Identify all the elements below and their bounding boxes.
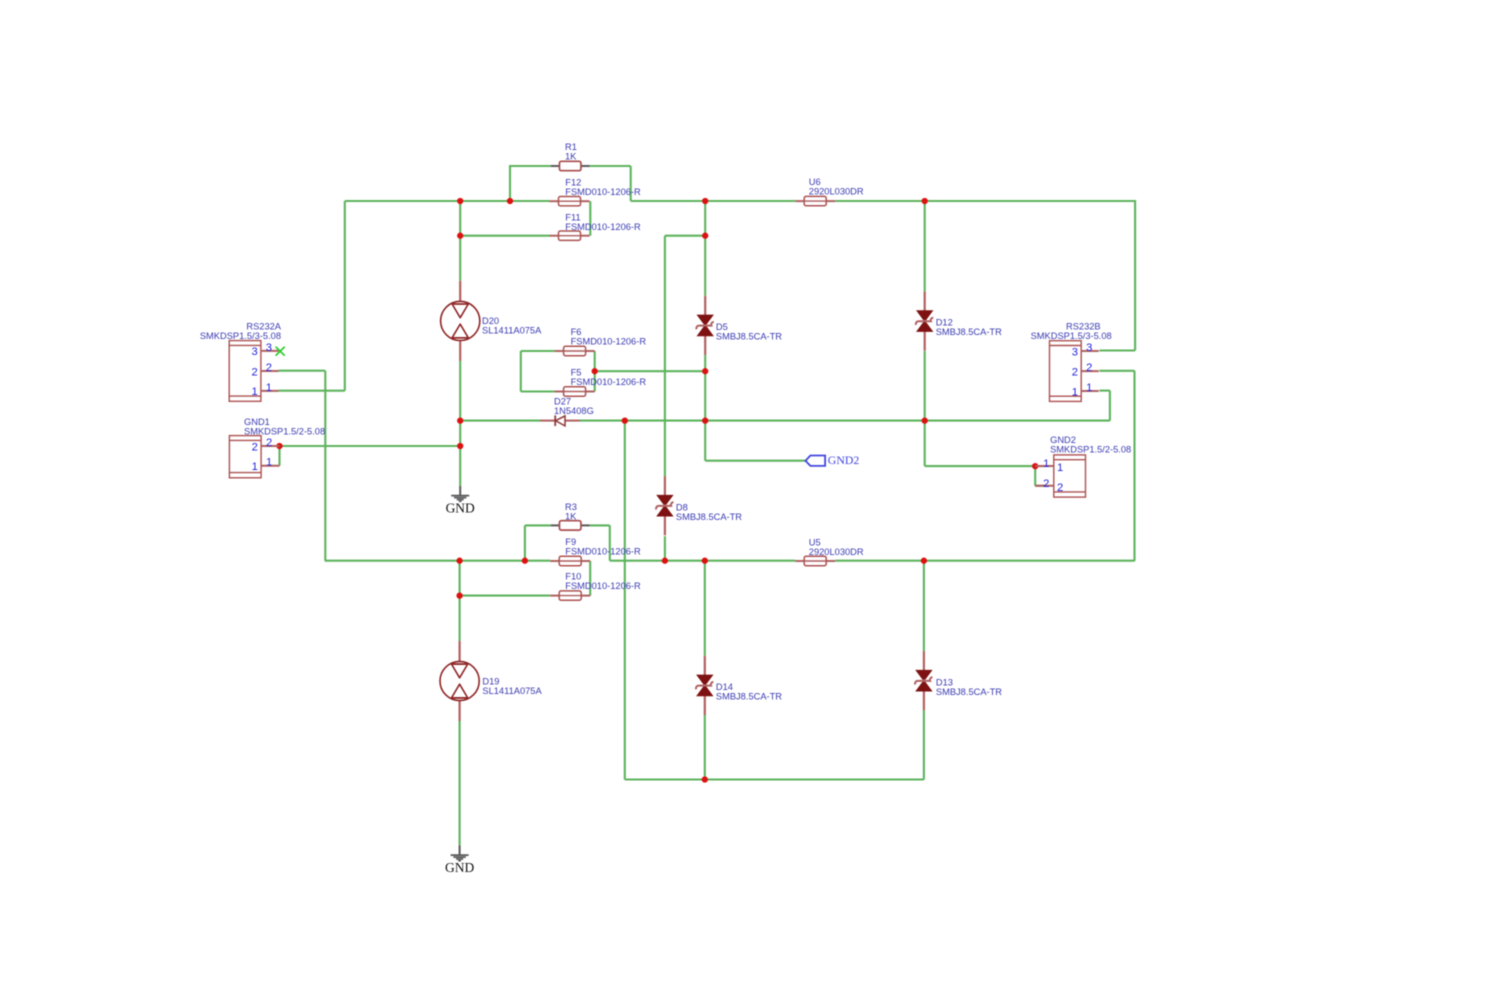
junction (662, 558, 668, 564)
svg-text:D19: D19 (482, 676, 499, 686)
svg-text:2: 2 (266, 362, 272, 374)
TVS diode D8 body (656, 476, 673, 535)
connector RS232B body (1050, 341, 1099, 402)
svg-text:D20: D20 (482, 316, 499, 326)
fuse U6 body (795, 196, 835, 205)
svg-text:FSMD010-1206-R: FSMD010-1206-R (571, 337, 647, 347)
label D13 (936, 677, 1002, 697)
svg-text:2: 2 (1086, 362, 1092, 374)
wire RS232A pin1 link (279, 390, 345, 392)
junction (622, 417, 628, 423)
wire RS232A pin2 link (279, 370, 326, 372)
RS232B pin 3 number (1072, 342, 1093, 358)
wire GND2 conn drop (924, 421, 926, 467)
junction (702, 368, 708, 374)
wire GND2 conn pin tie (1034, 466, 1036, 486)
resistor R3 body (551, 521, 590, 530)
svg-text:SMBJ8.5CA-TR: SMBJ8.5CA-TR (936, 327, 1002, 337)
wire RS232B pin2 link (1099, 370, 1134, 372)
svg-text:R3: R3 (565, 502, 577, 512)
svg-text:SMKDSP1.5/2-5.08: SMKDSP1.5/2-5.08 (1050, 444, 1131, 454)
svg-text:3: 3 (1072, 346, 1078, 358)
svg-text:1: 1 (266, 457, 272, 469)
fuse F12 body (550, 197, 590, 206)
svg-text:FSMD010-1206-R: FSMD010-1206-R (565, 546, 641, 556)
wire net2 branch row (665, 235, 705, 237)
svg-text:3: 3 (1086, 342, 1092, 354)
wire bottom row west (325, 560, 550, 562)
junction (702, 233, 708, 239)
wire R1 left drop (509, 165, 511, 201)
wire bottom row mid (610, 560, 795, 562)
label F9 (565, 537, 641, 557)
svg-text:2: 2 (266, 437, 272, 449)
wire R3 right drop (609, 525, 611, 560)
svg-text:SMBJ8.5CA-TR: SMBJ8.5CA-TR (716, 692, 782, 702)
wire R3 left drop (524, 525, 526, 560)
wire D5 riser b (704, 236, 706, 296)
label D14 (716, 682, 782, 702)
svg-text:SMBJ8.5CA-TR: SMBJ8.5CA-TR (716, 332, 782, 342)
svg-text:U5: U5 (809, 537, 821, 547)
svg-text:F5: F5 (571, 368, 582, 378)
wire D14 bottom riser (704, 715, 706, 780)
label R3 1K (565, 502, 577, 522)
wire D14 top riser (704, 561, 706, 656)
label GND1 (244, 417, 325, 436)
label GND2 connector (1050, 435, 1131, 454)
junction (921, 558, 927, 564)
fuse F11 body (550, 231, 590, 240)
svg-text:F6: F6 (571, 327, 582, 337)
svg-text:GND: GND (445, 860, 474, 875)
wire mid tall riser (624, 421, 626, 780)
wire D5 riser a (704, 201, 706, 236)
junction (276, 443, 282, 449)
RS232A pin 1 number (251, 382, 272, 398)
svg-text:GND: GND (446, 500, 475, 515)
wire R3 left link (525, 524, 551, 526)
junction (457, 417, 463, 423)
GND2 connector pin 1 number (1043, 458, 1063, 474)
svg-text:2: 2 (1043, 478, 1049, 490)
svg-text:2920L030DR: 2920L030DR (809, 186, 864, 196)
svg-text:SL1411A075A: SL1411A075A (482, 326, 542, 336)
junction (922, 198, 928, 204)
wire F11 left row (460, 235, 549, 237)
wire RS232B pin1 link (1099, 390, 1110, 392)
wire D27 row east (580, 420, 1110, 422)
no-connect X on RS232A pin 3 (276, 347, 285, 356)
wire D5 lower riser (704, 355, 706, 421)
svg-text:1: 1 (1043, 458, 1049, 470)
surge arrester D20 body (441, 281, 480, 361)
connector GND1 body (229, 436, 279, 478)
RS232A pin 2 number (251, 362, 272, 378)
wire F12-F11 right tie (589, 201, 591, 236)
svg-text:FSMD010-1206-R: FSMD010-1206-R (565, 581, 641, 591)
svg-text:FSMD010-1206-R: FSMD010-1206-R (565, 187, 641, 197)
label F10 (565, 572, 641, 592)
label D5 (716, 322, 782, 342)
junction (457, 198, 463, 204)
fuse F9 body (550, 556, 590, 565)
svg-text:1: 1 (1057, 462, 1063, 474)
wire GND2 conn pin1 row (925, 465, 1035, 467)
resistor R1 body (551, 161, 590, 170)
wire R1 left link (510, 165, 551, 167)
GND1 pin 1 number (252, 457, 273, 473)
wire D8 lower riser (664, 536, 666, 561)
svg-text:1K: 1K (565, 512, 577, 522)
label D8 (676, 502, 742, 522)
svg-text:1K: 1K (565, 152, 577, 162)
svg-text:SMBJ8.5CA-TR: SMBJ8.5CA-TR (676, 512, 742, 522)
surge arrester D19 body (440, 641, 479, 721)
wire D19 top riser (459, 596, 461, 641)
svg-text:FSMD010-1206-R: FSMD010-1206-R (571, 377, 647, 387)
wire D20 top riser (459, 201, 461, 281)
label U6 (809, 177, 864, 197)
svg-text:SMKDSP1.5/3-5.08: SMKDSP1.5/3-5.08 (200, 331, 281, 341)
svg-text:2: 2 (252, 441, 258, 453)
RS232B pin 2 number (1072, 362, 1093, 378)
label D12 (936, 318, 1002, 338)
connector GND2 connector body (1035, 455, 1085, 497)
junction (457, 233, 463, 239)
label F6 (571, 327, 647, 347)
svg-text:F9: F9 (565, 537, 576, 547)
wire right riser to bottom row (1133, 371, 1135, 561)
junction (522, 558, 528, 564)
junction (702, 417, 708, 423)
svg-text:FSMD010-1206-R: FSMD010-1206-R (565, 222, 641, 232)
ground GND (upper) (446, 486, 475, 516)
TVS diode D5 body (696, 296, 713, 355)
svg-text:2: 2 (251, 366, 257, 378)
wire F6 left link (521, 350, 555, 352)
label U5 (809, 537, 864, 557)
svg-text:1: 1 (252, 461, 258, 473)
label D20 (482, 316, 542, 336)
wire GND2 conn pin2 link (1035, 485, 1044, 487)
svg-text:D14: D14 (716, 682, 733, 692)
svg-text:F12: F12 (565, 177, 581, 187)
svg-text:R1: R1 (565, 142, 577, 152)
svg-text:U6: U6 (809, 177, 821, 187)
svg-text:2: 2 (1057, 482, 1063, 494)
fuse F6 body (555, 346, 595, 355)
wire D13 top riser (923, 561, 925, 651)
RS232A pin 3 number (251, 342, 272, 358)
svg-text:1N5408G: 1N5408G (554, 406, 594, 416)
label D19 (482, 676, 542, 696)
svg-text:D12: D12 (936, 318, 953, 328)
svg-text:1: 1 (251, 386, 257, 398)
RS232B pin 1 number (1072, 382, 1093, 398)
power port GND2 (806, 453, 860, 467)
TVS diode D13 body (915, 651, 932, 710)
svg-text:D27: D27 (554, 397, 571, 407)
wire D12 bottom riser (924, 351, 926, 421)
diode D27 body (540, 415, 580, 426)
wire R1 right link (590, 165, 631, 167)
wire D20 bottom riser to GND (459, 361, 461, 486)
wire F6-F5 left tie (520, 351, 522, 392)
wire D19 bottom riser to GND (459, 721, 461, 845)
svg-text:2920L030DR: 2920L030DR (809, 547, 864, 557)
wire GND1 pin tie (278, 446, 280, 466)
wire GND2 conn pin1 link (1035, 465, 1044, 467)
svg-text:1: 1 (1086, 382, 1092, 394)
wire net1 top-left row (345, 200, 550, 202)
svg-text:F11: F11 (565, 212, 580, 222)
wire RS232B pin3 link (1099, 349, 1135, 351)
ground GND (lower) (445, 845, 474, 875)
junction (456, 558, 462, 564)
label R1 1K (565, 142, 577, 162)
svg-text:D13: D13 (936, 677, 953, 687)
TVS diode D14 body (696, 656, 713, 715)
wire F5-F6 to D5 row (595, 370, 706, 372)
junction (592, 368, 598, 374)
svg-text:2: 2 (1072, 366, 1078, 378)
fuse F10 body (550, 591, 590, 600)
junction (922, 417, 928, 423)
svg-text:GND2: GND2 (828, 453, 860, 467)
junction (507, 198, 513, 204)
wire GND2 drop (704, 421, 706, 461)
svg-text:F10: F10 (565, 572, 581, 582)
GND2 connector pin 2 number (1043, 478, 1063, 494)
wire F5 left link (521, 390, 555, 392)
svg-text:SMKDSP1.5/2-5.08: SMKDSP1.5/2-5.08 (244, 426, 325, 436)
junction (702, 776, 708, 782)
wire RS232B pin1 drop (1109, 391, 1111, 421)
label F12 (565, 177, 641, 197)
svg-text:SL1411A075A: SL1411A075A (482, 686, 542, 696)
label RS232A (200, 321, 282, 341)
label F11 (565, 212, 641, 232)
svg-text:1: 1 (1072, 386, 1078, 398)
wire D13 bottom riser (923, 710, 925, 779)
wire left riser (324, 371, 326, 561)
wire R3 right link (590, 524, 610, 526)
svg-text:3: 3 (266, 342, 272, 354)
junction (702, 558, 708, 564)
junction (1032, 463, 1038, 469)
wire net2 right riser (1134, 200, 1136, 351)
wire F9-F10 right tie (589, 561, 591, 596)
connector RS232A body (229, 341, 278, 402)
wire F6-F5 right tie (594, 351, 596, 392)
wire GND1 row (280, 445, 461, 447)
label F5 (571, 368, 647, 388)
wire R1 right drop (630, 166, 632, 201)
junction (457, 443, 463, 449)
svg-text:D8: D8 (676, 502, 688, 512)
svg-text:D5: D5 (716, 322, 728, 332)
svg-text:SMBJ8.5CA-TR: SMBJ8.5CA-TR (936, 687, 1002, 697)
wire net1 left riser (344, 201, 346, 391)
wire F10 left row (460, 595, 551, 597)
wire D12 top riser (924, 201, 926, 291)
svg-text:1: 1 (266, 382, 272, 394)
wire left tie (459, 561, 461, 596)
wire D27 row west (460, 420, 541, 422)
label D27 (554, 397, 594, 417)
svg-text:RS232A: RS232A (246, 321, 281, 331)
fuse U5 body (795, 556, 835, 565)
wire GND2 row (705, 460, 805, 462)
label RS232B (1031, 321, 1112, 341)
wire net2 top row east of U6 (835, 200, 1135, 202)
junction (456, 592, 462, 598)
wire bottom row east of U5 (835, 560, 1134, 562)
wire bottom rail (625, 778, 924, 780)
svg-text:3: 3 (251, 346, 257, 358)
wire net2 top row west of U6 (631, 200, 796, 202)
junction (702, 198, 708, 204)
TVS diode D12 body (916, 292, 933, 351)
svg-text:SMKDSP1.5/3-5.08: SMKDSP1.5/3-5.08 (1031, 331, 1112, 341)
GND1 pin 2 number (252, 437, 273, 453)
wire D8 upper riser (664, 236, 666, 476)
fuse F5 body (555, 387, 595, 396)
svg-text:RS232B: RS232B (1066, 321, 1101, 331)
